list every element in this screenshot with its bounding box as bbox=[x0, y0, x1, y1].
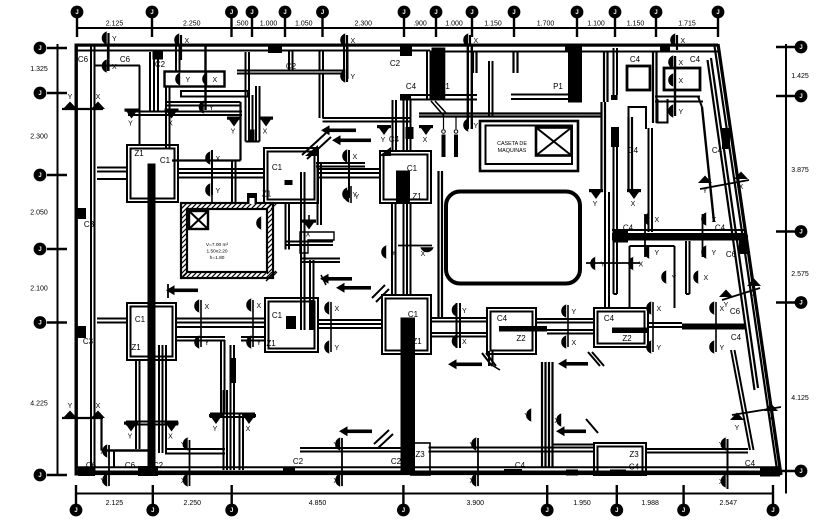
svg-text:C6: C6 bbox=[120, 55, 131, 64]
svg-text:2.050: 2.050 bbox=[30, 210, 48, 217]
mid C1 row beams bbox=[97, 318, 746, 337]
svg-text:J: J bbox=[799, 469, 802, 475]
svg-text:J: J bbox=[546, 508, 549, 514]
svg-text:Y: Y bbox=[209, 105, 214, 112]
svg-text:P1: P1 bbox=[440, 82, 450, 91]
svg-text:Z1: Z1 bbox=[134, 149, 144, 158]
svg-text:2.250: 2.250 bbox=[183, 500, 201, 507]
narrow beam rect y91 bbox=[181, 91, 248, 97]
svg-text:X: X bbox=[351, 38, 356, 45]
top exterior wall bbox=[75, 44, 718, 52]
svg-text:C1: C1 bbox=[272, 163, 283, 172]
lower-left beam a bbox=[126, 422, 178, 425]
svg-text:1.150: 1.150 bbox=[627, 21, 645, 28]
wall segment y71-74 C2 bbox=[237, 71, 344, 74]
beam y95-100 right of P1b bbox=[511, 95, 582, 100]
cut x351 r bbox=[350, 186, 352, 203]
pier P1 black mass bbox=[432, 48, 446, 101]
svg-text:J: J bbox=[613, 10, 616, 16]
footing Z2 C4 b bbox=[594, 308, 648, 347]
svg-text:Y: Y bbox=[469, 442, 474, 449]
cut diag slant2 bbox=[732, 407, 781, 415]
beam x166 down bbox=[166, 86, 170, 148]
wall pair x440 bbox=[439, 171, 443, 318]
svg-text:X: X bbox=[216, 156, 221, 163]
cut x201 mid bbox=[200, 300, 202, 347]
svg-text:X: X bbox=[572, 340, 577, 347]
beam x319 lower bbox=[320, 74, 324, 119]
svg-text:1.950: 1.950 bbox=[573, 500, 591, 507]
svg-text:J: J bbox=[283, 10, 286, 16]
svg-text:C4: C4 bbox=[623, 224, 634, 233]
svg-text:J: J bbox=[799, 45, 802, 51]
beam x403-411 mid bbox=[404, 203, 411, 295]
svg-text:C6: C6 bbox=[78, 55, 89, 64]
footing Z1 C1 lower-mid bbox=[382, 295, 431, 354]
cut x677 top bbox=[676, 35, 678, 50]
svg-text:J: J bbox=[470, 10, 473, 16]
column block slant b bbox=[739, 235, 748, 254]
right slanted exterior wall bbox=[715, 44, 782, 475]
pier P1b black mass bbox=[568, 46, 582, 103]
cistern right marker bbox=[256, 216, 263, 230]
footing Z3 b bbox=[594, 443, 646, 475]
svg-text:J: J bbox=[38, 173, 41, 179]
svg-text:2.300: 2.300 bbox=[30, 134, 48, 141]
beam bundle x245-260 bbox=[246, 52, 260, 142]
svg-text:Z3: Z3 bbox=[415, 450, 425, 459]
svg-text:X: X bbox=[639, 262, 644, 269]
cut x109 top bbox=[107, 33, 109, 71]
svg-text:X: X bbox=[704, 275, 709, 282]
svg-text:X: X bbox=[469, 478, 474, 485]
svg-text:C2: C2 bbox=[155, 60, 166, 69]
column block bottom d bbox=[504, 469, 522, 475]
svg-text:Y: Y bbox=[655, 250, 660, 257]
stair arrow b bbox=[166, 284, 198, 298]
beam x158-166 lower bbox=[159, 345, 166, 453]
beam y94-99 topright bbox=[655, 97, 703, 102]
svg-text:J: J bbox=[402, 10, 405, 16]
cut x708 right bbox=[702, 214, 704, 257]
footing Z1 C1 upper-mid bbox=[262, 148, 318, 203]
join corner topright bbox=[698, 97, 702, 108]
beam x317-321 bbox=[318, 163, 322, 225]
svg-text:X: X bbox=[631, 201, 636, 208]
svg-text:Z1: Z1 bbox=[131, 343, 141, 352]
svg-text:Z1: Z1 bbox=[412, 192, 422, 201]
cut x307 stair bbox=[308, 215, 310, 222]
footing Z1 C1 upper-left bbox=[127, 145, 178, 202]
footing Z1 C1 upper-right bbox=[380, 151, 431, 203]
right verticals below bbox=[605, 192, 609, 308]
svg-text:C2: C2 bbox=[286, 62, 297, 71]
room below beam bbox=[630, 246, 675, 308]
lower-left beam c bbox=[165, 449, 225, 454]
svg-text:1.050: 1.050 bbox=[295, 21, 313, 28]
svg-text:C4: C4 bbox=[629, 463, 640, 472]
svg-text:P1: P1 bbox=[553, 82, 563, 91]
svg-text:Y: Y bbox=[719, 442, 724, 449]
svg-text:1.700: 1.700 bbox=[537, 21, 555, 28]
svg-text:J: J bbox=[799, 94, 802, 100]
svg-text:Y: Y bbox=[216, 188, 221, 195]
svg-text:C1: C1 bbox=[272, 311, 283, 320]
beam x136-141 lower bbox=[136, 360, 140, 449]
right lower verticals bbox=[542, 362, 553, 468]
svg-text:1.988: 1.988 bbox=[641, 500, 659, 507]
svg-text:X: X bbox=[257, 303, 262, 310]
svg-text:C6: C6 bbox=[726, 250, 737, 259]
svg-text:Y: Y bbox=[381, 137, 386, 144]
beam x221 down bbox=[221, 340, 225, 413]
beam y95-100 left of P1 bbox=[400, 95, 477, 101]
cut x727 bottom bbox=[727, 439, 729, 489]
C4 square box a bbox=[627, 66, 650, 90]
svg-text:X: X bbox=[681, 38, 686, 45]
svg-text:2.575: 2.575 bbox=[791, 271, 809, 278]
svg-text:Y: Y bbox=[231, 129, 236, 136]
right wall lower slant bbox=[731, 350, 754, 450]
thick beam y234 right bbox=[612, 230, 746, 243]
section markers tents wall bbox=[63, 94, 105, 418]
svg-text:2.125: 2.125 bbox=[106, 21, 124, 28]
svg-text:Y: Y bbox=[392, 250, 397, 257]
door stub x473-477 bbox=[473, 52, 477, 74]
lower-left wall y450 bbox=[102, 419, 149, 468]
cut left y109 bbox=[62, 108, 103, 110]
svg-text:J: J bbox=[615, 508, 618, 514]
svg-text:X: X bbox=[719, 479, 724, 486]
svg-text:Y: Y bbox=[335, 345, 340, 352]
svg-text:C4: C4 bbox=[715, 224, 726, 233]
svg-text:X: X bbox=[181, 478, 186, 485]
footing Z1 C1 lower-left bbox=[127, 303, 176, 360]
svg-text:.900: .900 bbox=[413, 21, 427, 28]
svg-text:J: J bbox=[799, 301, 802, 307]
svg-text:X: X bbox=[168, 121, 173, 128]
svg-text:3.900: 3.900 bbox=[467, 500, 485, 507]
svg-text:X: X bbox=[335, 306, 340, 313]
svg-text:Y: Y bbox=[657, 345, 662, 352]
stair arrow g bbox=[556, 419, 598, 436]
svg-text:J: J bbox=[38, 247, 41, 253]
column block left wall a bbox=[77, 208, 86, 219]
svg-text:C4: C4 bbox=[712, 146, 723, 155]
section markers tents beams bbox=[698, 172, 778, 433]
svg-text:X: X bbox=[752, 291, 757, 298]
stair arrow e bbox=[339, 426, 393, 448]
column block top wall a bbox=[268, 44, 282, 53]
cut x651 right bbox=[644, 214, 646, 257]
right room wallL bbox=[649, 128, 653, 232]
svg-text:X: X bbox=[96, 94, 101, 101]
cut x194 bottom bbox=[189, 440, 191, 486]
svg-text:C2: C2 bbox=[391, 457, 402, 466]
svg-text:J: J bbox=[38, 46, 41, 52]
column n cistern top bbox=[247, 193, 257, 204]
column block left wall b bbox=[77, 326, 86, 338]
svg-text:Y: Y bbox=[351, 74, 356, 81]
footing Z2 C4 a bbox=[487, 308, 547, 354]
svg-text:C4: C4 bbox=[628, 146, 639, 155]
right dimension line with grid bubbles bbox=[776, 41, 809, 494]
door stub x653-657 bbox=[653, 51, 657, 123]
svg-text:X: X bbox=[96, 403, 101, 410]
cut x478 bottom bbox=[477, 438, 479, 486]
top dimension line with grid bubbles bbox=[71, 6, 725, 37]
marker line x675 bbox=[674, 56, 676, 116]
svg-text:Y: Y bbox=[100, 478, 105, 485]
svg-text:Y: Y bbox=[128, 434, 133, 441]
beam x108 line bbox=[107, 44, 109, 71]
stair S-wall horiz b bbox=[300, 259, 340, 263]
svg-text:4.225: 4.225 bbox=[30, 401, 48, 408]
svg-text:1.000: 1.000 bbox=[260, 21, 278, 28]
svg-text:C6: C6 bbox=[125, 461, 136, 470]
stair S-wall horiz a bbox=[286, 242, 334, 246]
svg-text:J: J bbox=[716, 10, 719, 16]
cut x331 mid bbox=[330, 302, 332, 352]
inner slant wall bbox=[708, 58, 759, 390]
svg-text:X: X bbox=[421, 251, 426, 258]
cut x253 mid bbox=[252, 300, 254, 347]
svg-text:J: J bbox=[75, 10, 78, 16]
svg-text:V=7.00 m³: V=7.00 m³ bbox=[206, 242, 229, 248]
column block bottom a bbox=[78, 467, 95, 476]
svg-text:Y: Y bbox=[213, 426, 218, 433]
svg-text:1.100: 1.100 bbox=[587, 21, 605, 28]
svg-text:C1: C1 bbox=[160, 156, 171, 165]
column block bottom f bbox=[566, 470, 578, 476]
cut x653 mid bbox=[652, 302, 654, 352]
svg-text:4.125: 4.125 bbox=[791, 395, 809, 402]
stair arrow a2 bbox=[332, 135, 371, 145]
stair arrow c1 bbox=[320, 274, 352, 285]
bottom dimension line with grid bubbles bbox=[70, 485, 780, 516]
svg-text:C2: C2 bbox=[153, 461, 164, 470]
door wedge a bbox=[305, 145, 318, 156]
svg-text:X: X bbox=[263, 129, 268, 136]
svg-text:X: X bbox=[679, 60, 684, 67]
svg-text:C3: C3 bbox=[83, 337, 94, 346]
svg-text:J: J bbox=[771, 508, 774, 514]
left dimension line with grid bubbles bbox=[30, 42, 67, 482]
svg-text:C2: C2 bbox=[390, 59, 401, 68]
cut x212 upper bbox=[211, 150, 213, 195]
svg-text:X: X bbox=[306, 232, 311, 239]
stair arrow c2 bbox=[336, 283, 389, 302]
cut x212 cistern bbox=[211, 186, 213, 203]
right wall pairB bbox=[629, 117, 633, 192]
svg-text:C4: C4 bbox=[690, 55, 701, 64]
column block bottom e bbox=[760, 468, 780, 477]
room C2a box bbox=[165, 72, 225, 87]
column block bottom c bbox=[283, 468, 295, 475]
right beam y445 bbox=[553, 444, 594, 446]
svg-text:J: J bbox=[654, 10, 657, 16]
svg-text:X: X bbox=[333, 478, 338, 485]
rounded rectangle patio bbox=[446, 192, 580, 284]
svg-text:J: J bbox=[230, 10, 233, 16]
beam y118 C2b bbox=[323, 118, 411, 122]
svg-text:J: J bbox=[575, 10, 578, 16]
beam x150-154 bbox=[150, 52, 158, 112]
wall x604-607 upper bbox=[604, 51, 608, 102]
svg-text:C4: C4 bbox=[731, 333, 742, 342]
column block bottom b bbox=[138, 466, 158, 476]
svg-text:Y: Y bbox=[462, 308, 467, 315]
svg-text:C4: C4 bbox=[630, 55, 641, 64]
lower beams y448 bbox=[300, 448, 748, 453]
svg-text:C2: C2 bbox=[293, 457, 304, 466]
svg-text:Y: Y bbox=[724, 302, 729, 309]
svg-text:Y: Y bbox=[703, 188, 708, 195]
wall x427-432 bbox=[427, 51, 431, 100]
column block top wall c bbox=[565, 44, 575, 52]
svg-text:1.325: 1.325 bbox=[30, 66, 48, 73]
svg-text:h=1.80: h=1.80 bbox=[210, 255, 225, 261]
left exterior wall bbox=[75, 44, 95, 476]
svg-text:Z1: Z1 bbox=[412, 337, 422, 346]
svg-text:C4: C4 bbox=[604, 314, 615, 323]
beam x392-398 bbox=[392, 203, 396, 295]
beam x205 thick bbox=[204, 44, 206, 110]
svg-text:Y: Y bbox=[524, 413, 529, 420]
beam pair y102 bbox=[166, 102, 241, 106]
beam x223-236 bbox=[224, 345, 244, 470]
upper C1 row beams bbox=[97, 168, 380, 180]
svg-text:Y: Y bbox=[735, 425, 740, 432]
svg-text:1.50x2.20: 1.50x2.20 bbox=[206, 249, 227, 255]
svg-text:X: X bbox=[112, 64, 117, 71]
svg-text:Y: Y bbox=[601, 262, 606, 269]
svg-text:C1: C1 bbox=[407, 164, 418, 173]
svg-text:X: X bbox=[185, 38, 190, 45]
cut diag slant3 bbox=[722, 288, 760, 300]
svg-text:J: J bbox=[74, 508, 77, 514]
stub x319 bbox=[320, 51, 324, 71]
cut x568 mid bbox=[567, 305, 569, 347]
shear wall mid bbox=[401, 318, 416, 473]
svg-text:C4: C4 bbox=[515, 461, 526, 470]
right thin pair bbox=[614, 48, 618, 294]
C4 square box b bbox=[664, 68, 700, 90]
door wedge b bbox=[379, 147, 391, 156]
svg-text:J: J bbox=[150, 10, 153, 16]
svg-text:1.715: 1.715 bbox=[678, 21, 696, 28]
svg-text:J: J bbox=[512, 10, 515, 16]
svg-text:X: X bbox=[462, 339, 467, 346]
thick grid pair x468 bbox=[468, 44, 472, 129]
beam x403-411 upper bbox=[393, 100, 414, 151]
svg-text:2.547: 2.547 bbox=[720, 500, 738, 507]
svg-text:Y: Y bbox=[112, 36, 117, 43]
cut line y263 bbox=[586, 262, 640, 264]
beam pair y111-115 bbox=[128, 112, 242, 116]
svg-text:Y: Y bbox=[181, 442, 186, 449]
stair S-wall verticals bbox=[285, 180, 293, 250]
svg-text:C4: C4 bbox=[406, 82, 417, 91]
svg-text:X: X bbox=[679, 78, 684, 85]
svg-text:MAQUINAS: MAQUINAS bbox=[498, 148, 527, 154]
svg-text:Y: Y bbox=[68, 403, 73, 410]
section cut markers lobes bbox=[100, 31, 727, 488]
beam pair x686 bbox=[686, 241, 690, 294]
caseta de maquinas box bbox=[480, 121, 578, 171]
footing Z3 a bbox=[391, 443, 430, 475]
cut y245 x427 bbox=[398, 246, 434, 259]
svg-text:Y: Y bbox=[679, 109, 684, 116]
svg-text:X: X bbox=[205, 304, 210, 311]
wall x240 down bbox=[172, 102, 241, 161]
beam y338 left bbox=[176, 337, 225, 341]
svg-text:X: X bbox=[739, 184, 744, 191]
pier diagonal bbox=[431, 101, 447, 116]
stair arrow f bbox=[558, 352, 604, 369]
svg-text:CASETA DE: CASETA DE bbox=[497, 141, 527, 147]
svg-text:X: X bbox=[657, 306, 662, 313]
lower-left beam b bbox=[210, 414, 255, 418]
svg-text:X: X bbox=[655, 217, 660, 224]
column block top wall grid2 bbox=[153, 52, 164, 60]
right column C4 bbox=[611, 95, 619, 147]
svg-text:C1: C1 bbox=[135, 315, 146, 324]
svg-text:.500: .500 bbox=[235, 21, 249, 28]
stub x289 bbox=[289, 51, 293, 71]
svg-text:Y: Y bbox=[333, 442, 338, 449]
svg-text:Y: Y bbox=[355, 194, 360, 201]
cut x716 mid bbox=[715, 302, 717, 352]
svg-text:1.150: 1.150 bbox=[484, 21, 502, 28]
beam x344-348 bbox=[344, 44, 348, 79]
stair arrow d bbox=[448, 353, 496, 369]
svg-text:J: J bbox=[799, 230, 802, 236]
svg-text:X: X bbox=[213, 77, 218, 84]
svg-text:2.300: 2.300 bbox=[354, 21, 372, 28]
cut x109 bottom bbox=[108, 445, 110, 486]
shear wall grid2 bbox=[148, 164, 156, 471]
svg-text:Y: Y bbox=[257, 340, 262, 347]
stair room verticals bbox=[301, 172, 315, 330]
column block top wall d bbox=[660, 44, 670, 52]
svg-text:2.250: 2.250 bbox=[183, 21, 201, 28]
wall x489 caseta bbox=[489, 61, 493, 117]
beam x232 mid bbox=[232, 161, 236, 204]
svg-text:X: X bbox=[474, 38, 479, 45]
svg-text:Y: Y bbox=[68, 94, 73, 101]
door pivot bars bbox=[442, 117, 459, 157]
beam x177 stub bbox=[176, 44, 180, 72]
caseta top wall bbox=[419, 114, 602, 117]
svg-text:X: X bbox=[423, 137, 428, 144]
svg-text:J: J bbox=[434, 10, 437, 16]
svg-text:J: J bbox=[250, 10, 253, 16]
svg-text:Y: Y bbox=[672, 275, 677, 282]
svg-text:Z1: Z1 bbox=[262, 190, 272, 199]
svg-text:Z2: Z2 bbox=[622, 334, 632, 343]
svg-text:C4: C4 bbox=[745, 459, 756, 468]
room C6 divider bbox=[96, 66, 141, 146]
svg-text:C4: C4 bbox=[389, 135, 400, 144]
svg-text:X: X bbox=[554, 418, 559, 425]
svg-text:Z1: Z1 bbox=[266, 339, 276, 348]
svg-text:C1: C1 bbox=[408, 310, 419, 319]
cut x470 top bbox=[469, 35, 471, 44]
svg-text:X: X bbox=[100, 449, 105, 456]
svg-text:C3: C3 bbox=[84, 220, 95, 229]
svg-text:4.850: 4.850 bbox=[309, 500, 327, 507]
